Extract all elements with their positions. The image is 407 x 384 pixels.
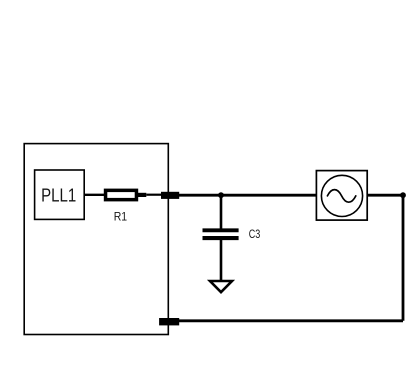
wire source to right corner <box>367 194 403 197</box>
pin pad top <box>161 192 179 199</box>
wire PLL1 to R1 <box>84 194 105 196</box>
ac source sine wave <box>327 190 355 203</box>
capacitor C3 bottom plate <box>203 236 239 240</box>
ac source circle <box>321 175 362 216</box>
enclosure block <box>24 144 168 335</box>
resistor R1 <box>106 190 137 199</box>
ground symbol <box>210 281 232 292</box>
svg-text:R1: R1 <box>114 211 127 224</box>
wire main bus (pad to source) <box>179 194 317 197</box>
capacitor C3 top plate <box>203 228 239 232</box>
wire junction to capacitor <box>220 195 223 229</box>
wire right edge (vertical) <box>402 195 405 321</box>
pin pad bottom <box>159 318 179 325</box>
wire bottom return <box>179 319 403 322</box>
node dot top-right corner <box>400 192 406 198</box>
junction node <box>218 192 224 198</box>
wire R1 to pin pad <box>146 194 162 196</box>
svg-text:C3: C3 <box>249 227 261 241</box>
resistor R1 right lead (thick) <box>137 193 146 197</box>
svg-text:PLL1: PLL1 <box>41 185 76 206</box>
wire capacitor to ground <box>220 240 223 281</box>
subcircuit box PLL1 <box>35 170 85 219</box>
ac source outer box <box>316 171 367 221</box>
